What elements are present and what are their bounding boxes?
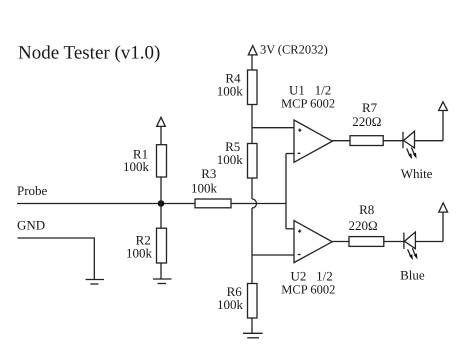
wire U2 output to R8 (332, 241, 349, 243)
op-amp U1 (294, 120, 332, 162)
node net vertical (U1- / R3 / U2+) (285, 154, 287, 229)
LED D2 (blue) (404, 232, 418, 260)
svg-text:220Ω: 220Ω (349, 218, 378, 233)
wire probe input (17, 203, 161, 205)
svg-text:Blue: Blue (400, 267, 425, 282)
power arrow (blue output) (439, 203, 448, 212)
wire hop down to R6 (251, 208, 253, 284)
ground (below R6) (243, 333, 263, 338)
svg-text:220Ω: 220Ω (352, 114, 381, 129)
svg-text:100k: 100k (217, 297, 244, 312)
power arrow (top of R1) (157, 117, 166, 126)
wire R2 to ground (160, 263, 162, 279)
wire R7 to LED (383, 140, 403, 142)
label U1 1/2 MCP 6002 (281, 82, 335, 110)
svg-text:R7: R7 (362, 100, 378, 115)
svg-text:White: White (401, 166, 433, 181)
LED D1 (white) (403, 131, 417, 159)
resistor R4 (217, 70, 257, 105)
wire R5 down to hop (251, 178, 253, 199)
svg-text:3V (CR2032): 3V (CR2032) (260, 43, 328, 57)
svg-text:Node Tester (v1.0): Node Tester (v1.0) (18, 43, 160, 64)
power arrow (white output) (439, 102, 448, 111)
wire rail up (442, 111, 444, 141)
svg-text:R3: R3 (201, 166, 216, 181)
power 3V arrow (248, 46, 257, 55)
ground (below R2) (153, 279, 172, 284)
svg-text:GND: GND (17, 218, 45, 233)
svg-text:R8: R8 (359, 202, 374, 217)
wire R3 to inverting net (231, 203, 286, 205)
wire to U2 inverting input (252, 254, 294, 256)
svg-text:Probe: Probe (17, 183, 48, 198)
op-amp U2 (294, 221, 332, 263)
svg-text:100k: 100k (123, 159, 150, 174)
resistor R2 (126, 228, 167, 263)
wire to U1 inverting input (286, 153, 294, 155)
svg-text:MCP 6002: MCP 6002 (281, 282, 335, 296)
wire U1 output to R7 (332, 140, 350, 142)
wire LED to rail (415, 241, 443, 243)
wire GND (18, 238, 95, 279)
svg-text:MCP 6002: MCP 6002 (281, 96, 335, 110)
wire to U2 noninverting input (286, 228, 294, 230)
svg-text:100k: 100k (217, 84, 244, 99)
wire arrow to R1 (160, 126, 162, 144)
ground (GND input) (86, 280, 105, 285)
wire node to R3 (161, 203, 195, 205)
node junction dot (158, 200, 165, 207)
wire R1 to node (160, 177, 162, 204)
wire R8 to LED (384, 241, 404, 243)
resistor R5 (217, 139, 257, 178)
svg-text:100k: 100k (217, 152, 244, 167)
resistor R6 (217, 284, 257, 319)
resistor R8 (349, 202, 384, 247)
svg-text:100k: 100k (191, 181, 218, 196)
wire R6 to ground (251, 318, 253, 333)
wire to U1 noninverting input (252, 127, 294, 129)
svg-text:U1 1/2: U1 1/2 (289, 82, 331, 97)
wire hop over horizontal net (252, 199, 257, 208)
label U2 1/2 MCP 6002 (281, 269, 335, 297)
wire R4 to R5 (251, 105, 253, 144)
resistor R7 (350, 100, 383, 146)
wire LED to rail (415, 140, 444, 142)
resistor R1 (123, 145, 167, 177)
wire 3V to R4 (251, 55, 253, 70)
resistor R3 (191, 166, 231, 208)
wire node to R2 (160, 204, 162, 229)
svg-text:100k: 100k (126, 245, 153, 260)
wire rail up (442, 212, 444, 241)
